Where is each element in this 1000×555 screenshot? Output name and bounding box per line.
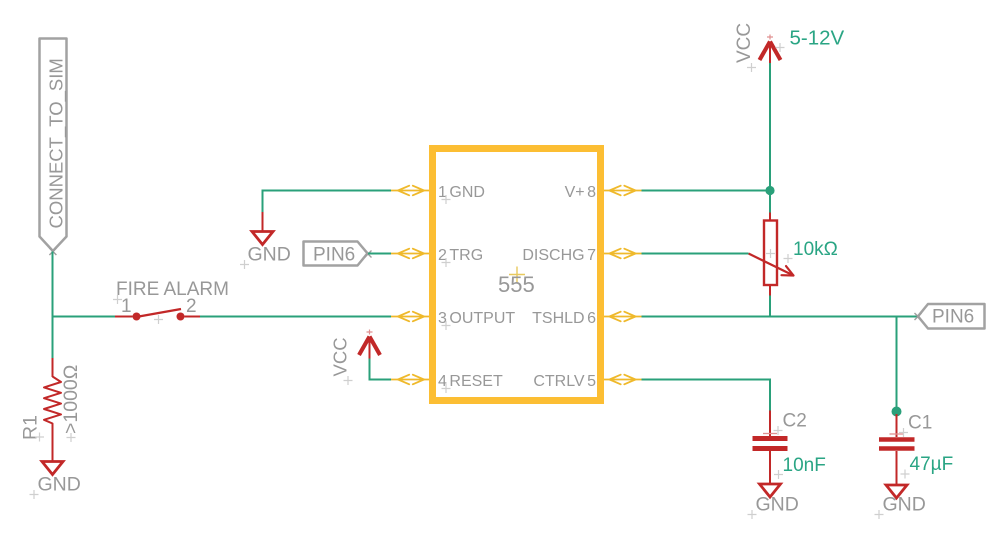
pin 5 CTRLV (533, 373, 641, 390)
pin 4 RESET (391, 373, 503, 393)
pin 3 OUTPUT (391, 310, 515, 330)
svg-text:1: 1 (121, 296, 132, 317)
value label 47µF (901, 454, 954, 479)
wire DISCHG to pot wiper (642, 253, 749, 255)
power flag VCC top right (734, 23, 781, 72)
net flag PIN6 right (915, 304, 985, 329)
IC anchor cross (509, 267, 525, 283)
svg-text:DISCHG7: DISCHG7 (522, 247, 596, 264)
value label >1000Ω (60, 365, 82, 442)
wire pot bottom to TSHLD row (769, 296, 771, 317)
value label 5-12V (776, 27, 845, 53)
wire TSHLD row (642, 316, 919, 318)
svg-text:>1000Ω: >1000Ω (60, 365, 82, 434)
wire red stub C1 top (896, 414, 898, 437)
svg-text:GND: GND (883, 494, 926, 516)
wire V+ pin to junction (642, 190, 771, 192)
wire junction down to pot (769, 191, 771, 213)
wire VCC to pin 4 (370, 359, 392, 380)
wire red stub C2 top (769, 411, 771, 437)
ground GND below C2 (748, 484, 799, 519)
switch label FIRE ALARM (113, 279, 229, 304)
ground GND near pin 1 (240, 232, 291, 270)
label R1 (20, 415, 45, 441)
svg-text:R1: R1 (20, 415, 42, 440)
pin 7 DISCHG (522, 247, 641, 264)
resistor R1 (44, 377, 61, 463)
svg-text:VCC: VCC (734, 23, 755, 63)
net flag PIN6 left (304, 242, 372, 266)
label C1 (899, 413, 932, 438)
wire switch to pin 3 (200, 316, 391, 318)
net flag CONNECT_TO_SIM (40, 39, 68, 256)
svg-text:10nF: 10nF (783, 455, 826, 476)
svg-text:C1: C1 (908, 413, 932, 434)
wire TSHLD row down to C1 (896, 317, 898, 412)
svg-text:C2: C2 (783, 411, 807, 432)
potentiometer R2 10kΩ (749, 213, 794, 296)
value label 10nF (774, 455, 826, 479)
svg-text:FIRE ALARM: FIRE ALARM (116, 279, 229, 300)
svg-text:GND: GND (248, 244, 291, 266)
capacitor C2 (753, 434, 788, 485)
svg-text:3OUTPUT: 3OUTPUT (438, 310, 515, 327)
pin 2 TRG (391, 247, 483, 267)
wire to resistor R1 (52, 358, 54, 377)
svg-text:47µF: 47µF (910, 454, 954, 475)
junction V+ node (765, 186, 774, 195)
junction C1 node (892, 407, 902, 417)
wire CTRLV row to C2 (642, 380, 771, 411)
label C2 (774, 411, 807, 436)
svg-text:4RESET: 4RESET (438, 373, 503, 390)
svg-text:CONNECT_TO_SIM: CONNECT_TO_SIM (46, 58, 68, 228)
wire switch row left (53, 316, 116, 318)
svg-text:CTRLV5: CTRLV5 (533, 373, 596, 390)
svg-text:555: 555 (498, 272, 535, 297)
wire red stub GND1 (262, 212, 264, 232)
svg-text:5-12V: 5-12V (790, 27, 845, 50)
pin 1 GND (391, 184, 485, 204)
wire PIN6 to pin 2 (368, 253, 391, 255)
capacitor C1 (879, 434, 915, 485)
svg-text:2TRG: 2TRG (438, 247, 483, 264)
IC U1 555 body (433, 149, 601, 401)
svg-text:PIN6: PIN6 (313, 245, 355, 266)
svg-text:1GND: 1GND (438, 184, 485, 201)
svg-text:2: 2 (186, 296, 197, 317)
svg-text:TSHLD6: TSHLD6 (532, 310, 596, 327)
svg-text:V+8: V+8 (565, 184, 597, 201)
svg-text:PIN6: PIN6 (932, 307, 974, 328)
power flag VCC near pin 4 (330, 330, 381, 386)
value label 10kΩ (784, 239, 838, 263)
svg-text:10kΩ: 10kΩ (793, 239, 838, 260)
ground GND below C1 (875, 485, 926, 519)
wire net CONNECT_TO_SIM vertical (52, 252, 54, 359)
wire pin 1 to GND (263, 191, 392, 213)
pin 8 V+ (565, 184, 642, 201)
switch FIRE ALARM (115, 309, 200, 324)
pin 6 TSHLD (532, 310, 641, 327)
svg-text:GND: GND (756, 494, 799, 516)
svg-text:VCC: VCC (330, 337, 351, 376)
svg-text:GND: GND (38, 474, 81, 496)
wire VCC down to V+ row (769, 63, 771, 191)
ground GND below R1 (30, 462, 81, 500)
